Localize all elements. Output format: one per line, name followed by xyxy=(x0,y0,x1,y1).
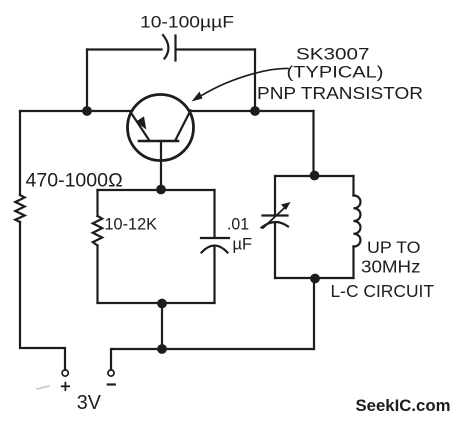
capacitor C1 10-100µµF xyxy=(163,35,176,61)
wire L-C left vertical lower xyxy=(274,224,276,279)
capacitor C2 .01 µF xyxy=(201,238,229,253)
node junction dot box bottom xyxy=(157,299,167,309)
wire top loop right horizontal xyxy=(177,48,256,50)
svg-text:470-1000Ω: 470-1000Ω xyxy=(26,171,123,192)
node junction dot bottom rail xyxy=(157,344,167,354)
wire box left vertical upper xyxy=(96,190,98,216)
wire box right vertical lower xyxy=(213,247,215,304)
node junction dot L-C bottom xyxy=(310,274,320,284)
annotation arrow to transistor xyxy=(192,68,289,101)
node junction dot L-C top xyxy=(310,171,320,181)
svg-text:µF: µF xyxy=(233,234,253,253)
wire top loop left horizontal xyxy=(87,48,162,50)
svg-text:SeekIC.com: SeekIC.com xyxy=(356,396,451,415)
wire left branch lower xyxy=(20,222,65,370)
wire bottom rail xyxy=(112,348,314,350)
svg-text:10-100µµF: 10-100µµF xyxy=(140,13,234,32)
capacitor C3 variable xyxy=(262,202,291,228)
wire right vertical from rail to L-C box xyxy=(312,111,314,176)
wire top loop left vertical xyxy=(86,50,88,112)
resistor R2 10-12K xyxy=(93,216,102,246)
resistor R1 470-1000 ohm xyxy=(15,195,24,222)
wire parallel box top rail xyxy=(98,189,215,191)
node junction dot base node xyxy=(156,185,166,195)
wire L-C left vertical upper xyxy=(274,176,276,215)
svg-text:PNP TRANSISTOR: PNP TRANSISTOR xyxy=(257,83,423,103)
svg-text:L-C CIRCUIT: L-C CIRCUIT xyxy=(331,281,435,301)
wire top loop right vertical xyxy=(254,50,256,112)
wire minus terminal stub xyxy=(110,349,112,370)
svg-text:3V: 3V xyxy=(77,392,102,414)
wire transistor base lead down xyxy=(160,141,162,189)
battery terminal plus xyxy=(62,370,68,376)
inductor L1 xyxy=(354,195,361,246)
artifact faint dash xyxy=(37,386,49,389)
svg-text:UP TO: UP TO xyxy=(367,239,421,257)
transistor Q1 xyxy=(128,95,194,161)
battery terminal minus xyxy=(108,370,114,376)
svg-text:30MHz: 30MHz xyxy=(361,256,421,276)
svg-text:10-12K: 10-12K xyxy=(105,215,158,233)
wire L-C bottom to rail xyxy=(313,279,315,350)
svg-text:.01: .01 xyxy=(227,216,249,234)
wire L-C right vertical lower xyxy=(352,247,354,279)
wire emitter node to bottom rail xyxy=(161,303,163,349)
wire main top rail xyxy=(20,110,314,112)
svg-text:(TYPICAL): (TYPICAL) xyxy=(287,62,384,81)
svg-text:SK3007: SK3007 xyxy=(296,46,370,64)
wire L-C bottom rail xyxy=(275,277,354,279)
battery minus sign xyxy=(108,383,115,385)
node junction dot at top cap left xyxy=(82,106,92,116)
battery plus sign xyxy=(62,383,69,390)
wire box left vertical lower xyxy=(96,246,98,304)
wire box right vertical upper xyxy=(213,190,215,237)
wire left branch down xyxy=(19,111,21,195)
wire L-C box top rail xyxy=(275,175,354,177)
wire box bottom rail xyxy=(98,302,215,304)
node junction dot at top cap right xyxy=(250,106,260,116)
wire L-C right vertical upper xyxy=(352,176,354,196)
